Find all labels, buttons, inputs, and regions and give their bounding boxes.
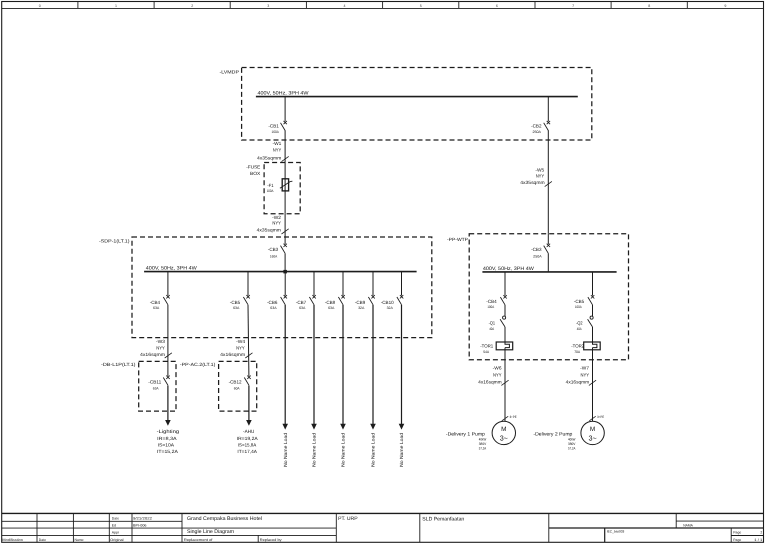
svg-text:No Name Load: No Name Load [341, 432, 346, 466]
thermal overload TOR2 [584, 342, 601, 350]
wire CB5 to CB12 [247, 305, 250, 376]
svg-text:3+PE: 3+PE [597, 415, 604, 419]
wire bus2 to CB9 [372, 272, 374, 296]
svg-text:100A: 100A [487, 305, 494, 309]
svg-text:-CB5: -CB5 [574, 299, 585, 304]
panel DB-L1P box [139, 361, 176, 411]
wire Q2 to TOR2 [592, 327, 594, 342]
svg-text:4x16sqmm: 4x16sqmm [566, 380, 590, 385]
wire CB10 to no name load arrow [401, 305, 403, 425]
wire through fuse [284, 163, 286, 214]
svg-text:3: 3 [267, 4, 269, 8]
svg-text:No Name Load: No Name Load [283, 432, 288, 466]
panel PP-AC.2 box [219, 361, 257, 411]
svg-text:-CB12: -CB12 [229, 379, 242, 384]
panel SDP-1 box [132, 237, 432, 338]
svg-text:9: 9 [724, 4, 726, 8]
breaker CB4 (PP-WTP) [503, 295, 506, 298]
bus PP-WTP 400V [482, 271, 616, 273]
svg-text:9/21/2022: 9/21/2022 [133, 516, 152, 520]
wire CB3wtp to bus3 [547, 253, 549, 272]
svg-text:-Delivery 1 Pump: -Delivery 1 Pump [446, 431, 485, 437]
svg-text:63A: 63A [270, 306, 277, 310]
breaker CB9 [371, 295, 374, 298]
wire CB12 to AHU arrow [248, 385, 250, 421]
cable slash W4 [245, 353, 252, 358]
breaker CB5 [246, 295, 249, 298]
header tick 5 [382, 2, 384, 9]
svg-text:M: M [590, 426, 595, 433]
svg-text:2: 2 [191, 4, 193, 8]
svg-text:NYY: NYY [272, 221, 281, 226]
header tick 1 [77, 2, 79, 9]
svg-text:400V, 50Hz, 3PH 4W: 400V, 50Hz, 3PH 4W [483, 266, 534, 272]
svg-text:3~: 3~ [588, 433, 596, 442]
svg-text:54A: 54A [483, 350, 490, 354]
svg-text:Grand Cempaka Business Hotel: Grand Cempaka Business Hotel [187, 516, 262, 522]
svg-text:NYY: NYY [156, 346, 165, 351]
junction node CB3/bus2 [283, 270, 287, 274]
breaker CB5 (PP-WTP) [591, 295, 594, 298]
svg-text:57,2A: 57,2A [568, 446, 576, 450]
svg-text:-Lighting: -Lighting [157, 429, 180, 435]
svg-text:4x35sqmm: 4x35sqmm [257, 155, 281, 160]
wire CB4 to CB11 [167, 305, 169, 376]
svg-text:-PP-WTP: -PP-WTP [447, 237, 468, 242]
panel PP-WTP box [469, 234, 628, 360]
svg-text:Single Line Diagram: Single Line Diagram [187, 529, 234, 535]
svg-text:-CB10: -CB10 [381, 300, 394, 305]
svg-text:-CB6: -CB6 [267, 300, 278, 305]
svg-text:-DB-L1P(LT.1): -DB-L1P(LT.1) [101, 362, 136, 367]
svg-text:40A: 40A [577, 327, 583, 331]
svg-text:Original: Original [110, 538, 124, 542]
svg-text:160A: 160A [272, 130, 280, 134]
svg-text:4x16sqmm: 4x16sqmm [220, 352, 245, 357]
svg-text:No Name Load: No Name Load [371, 432, 376, 466]
svg-text:250A: 250A [533, 130, 542, 134]
svg-text:BOX: BOX [250, 171, 260, 176]
breaker CB1 [284, 121, 287, 124]
svg-text:-CB9: -CB9 [355, 300, 366, 305]
wire CB7 to no name load arrow [313, 305, 315, 425]
cable slash W1 [282, 156, 289, 161]
svg-text:-TOR1: -TOR1 [480, 344, 493, 349]
svg-text:4x16sqmm: 4x16sqmm [140, 352, 165, 357]
svg-text:5: 5 [420, 4, 422, 8]
title block top line [2, 512, 764, 514]
svg-text:32A: 32A [358, 306, 365, 310]
contactor Q2 [590, 316, 593, 319]
svg-text:Ed: Ed [112, 523, 116, 527]
svg-text:1: 1 [115, 4, 117, 8]
cable slash W2 [282, 229, 289, 234]
wire bus2 to CB8 [342, 272, 344, 296]
svg-text:100A: 100A [575, 305, 582, 309]
wire CB8 to no name load arrow [342, 305, 344, 425]
bus SDP-1 400V [144, 271, 417, 273]
svg-text:70A: 70A [574, 350, 581, 354]
svg-text:Modification: Modification [2, 538, 23, 542]
wire bus1 to CB2 [547, 97, 549, 122]
svg-text:-W3: -W3 [156, 339, 165, 344]
wire bus2 to CB7 [313, 272, 315, 296]
svg-text:Date: Date [39, 538, 46, 542]
svg-text:400V, 50Hz, 3PH 4W: 400V, 50Hz, 3PH 4W [258, 91, 309, 97]
svg-text:2: 2 [760, 530, 762, 534]
svg-text:-CB8: -CB8 [325, 300, 336, 305]
svg-text:NYY: NYY [536, 173, 545, 178]
header row line [2, 7, 764, 9]
breaker CB6 [284, 295, 287, 298]
svg-text:-CB2: -CB2 [531, 123, 542, 128]
svg-text:4x16sqmm: 4x16sqmm [478, 380, 502, 385]
breaker CB3 [284, 244, 287, 247]
svg-text:4x35sqmm: 4x35sqmm [520, 180, 544, 185]
svg-text:380V: 380V [479, 442, 487, 446]
title block vertical lines [36, 513, 38, 542]
svg-text:Appr: Appr [112, 530, 120, 534]
svg-text:63A: 63A [299, 306, 306, 310]
wire bus2 to CB10 [401, 272, 403, 296]
wire CB2 to PP-WTP (cable W5) [547, 130, 549, 233]
wire CB4 to Q1 [504, 305, 506, 316]
svg-text:1 / 1: 1 / 1 [754, 538, 762, 542]
svg-text:Replacement of: Replacement of [184, 538, 213, 542]
svg-text:63A: 63A [153, 387, 159, 391]
svg-text:Page: Page [733, 530, 741, 534]
svg-text:-W6: -W6 [493, 365, 502, 370]
svg-text:4x35sqmm: 4x35sqmm [257, 228, 281, 233]
cable slash W6 [501, 380, 508, 385]
breaker CB3 (PP-WTP) [547, 244, 550, 247]
svg-text:Replaced by: Replaced by [260, 538, 282, 542]
svg-text:63A: 63A [328, 306, 335, 310]
breaker CB7 [312, 295, 315, 298]
wire bus2 to CB5 [247, 272, 249, 296]
svg-text:Page: Page [733, 538, 741, 542]
svg-text:IT=17,4A: IT=17,4A [237, 449, 257, 454]
breaker CB4 [166, 295, 169, 298]
header tick 7 [534, 2, 536, 9]
svg-text:-W2: -W2 [272, 215, 281, 220]
svg-text:-CB3: -CB3 [268, 247, 279, 252]
svg-text:-LVMDP: -LVMDP [220, 69, 240, 74]
svg-text:SLD Pemanfaatan: SLD Pemanfaatan [422, 517, 464, 523]
svg-text:-PP-AC.2(LT.1): -PP-AC.2(LT.1) [180, 362, 216, 367]
cable slash 3+PE motor 2 [589, 416, 595, 421]
wire CB6 to no name load arrow [284, 305, 286, 425]
svg-text:IT=15,2A: IT=15,2A [157, 449, 179, 454]
motor M2 (3~) [581, 421, 604, 444]
svg-text:NAMA: NAMA [683, 523, 693, 527]
svg-text:Name: Name [75, 538, 84, 542]
contactor Q1 [503, 316, 506, 319]
svg-text:0: 0 [39, 4, 41, 8]
cable slash 3+PE motor 1 [502, 416, 508, 421]
svg-text:-FUSE: -FUSE [246, 164, 260, 169]
svg-text:63A: 63A [153, 306, 160, 310]
header tick 4 [305, 2, 307, 9]
svg-text:PT. URP: PT. URP [338, 516, 358, 522]
wire bus2 to CB4 [167, 272, 169, 296]
svg-text:6: 6 [496, 4, 498, 8]
svg-text:250A: 250A [533, 254, 542, 258]
svg-text:NYY: NYY [273, 148, 282, 153]
svg-text:-CB11: -CB11 [148, 379, 161, 384]
svg-text:380V: 380V [568, 442, 576, 446]
wire CB11 to lighting arrow [167, 385, 169, 421]
svg-text:160A: 160A [270, 254, 278, 258]
svg-text:-CB7: -CB7 [296, 300, 307, 305]
motor M1 (3~) [492, 421, 515, 444]
svg-text:-W5: -W5 [535, 167, 544, 172]
wire bus3 branch 1 [504, 272, 506, 296]
svg-text:-CB4: -CB4 [486, 299, 497, 304]
wire TOR1 to motor [504, 348, 506, 422]
svg-text:400V, 50Hz, 3PH 4W: 400V, 50Hz, 3PH 4W [146, 266, 197, 272]
svg-text:8: 8 [648, 4, 650, 8]
svg-text:IS=15,8A: IS=15,8A [238, 443, 257, 448]
title block horizontal line row1 [2, 520, 182, 522]
wire TOR2 to motor [592, 348, 594, 422]
svg-text:IEC_bas003: IEC_bas003 [607, 530, 625, 534]
thermal overload TOR1 [496, 342, 513, 350]
title block horizontal line row3 [2, 534, 337, 536]
svg-text:-Q1: -Q1 [489, 320, 496, 325]
svg-text:63A: 63A [233, 306, 240, 310]
wire CB5 to Q2 [592, 305, 594, 316]
svg-text:-CB1: -CB1 [268, 123, 279, 128]
svg-text:-CB5: -CB5 [230, 300, 241, 305]
header tick 8 [610, 2, 612, 9]
svg-text:M: M [501, 426, 506, 433]
svg-text:3~: 3~ [500, 433, 508, 442]
breaker CB8 [341, 295, 344, 298]
wire W5 into panel to CB3wtp [547, 234, 549, 244]
cable slash W7 [589, 380, 596, 385]
svg-text:-Delivery 2 Pump: -Delivery 2 Pump [533, 431, 572, 437]
svg-text:57,2A: 57,2A [479, 446, 487, 450]
panel FUSE BOX [264, 163, 300, 214]
svg-text:-TOR2: -TOR2 [571, 344, 584, 349]
wire Q1 to TOR1 [504, 327, 506, 342]
cable slash W3 [165, 353, 172, 358]
cable slash W5 [545, 181, 552, 186]
svg-text:IR=19,2A: IR=19,2A [237, 436, 259, 441]
header tick 3 [229, 2, 231, 9]
wire bus2 to CB6 [284, 272, 286, 296]
breaker CB12 [247, 376, 250, 379]
svg-text:32A: 32A [387, 306, 394, 310]
wire bus1 to CB1 [284, 97, 286, 122]
svg-text:-SDP-1(LT.1): -SDP-1(LT.1) [99, 239, 130, 244]
svg-text:IR=8,3A: IR=8,3A [157, 436, 178, 441]
svg-text:-CB4: -CB4 [150, 300, 161, 305]
breaker CB2 [547, 121, 550, 124]
breaker CB11 [166, 376, 169, 379]
wire CB1 to fuse box [284, 130, 286, 162]
breaker CB10 [400, 295, 403, 298]
svg-text:100A: 100A [267, 189, 274, 193]
svg-text:IS=10A: IS=10A [158, 443, 175, 448]
bus LVMDP 400V [256, 96, 578, 98]
svg-text:-AHU: -AHU [243, 429, 255, 435]
header tick 9 [686, 2, 688, 9]
wire CB3 to bus2 [284, 253, 286, 271]
svg-text:NYY: NYY [581, 372, 590, 377]
svg-text:60A: 60A [234, 387, 240, 391]
svg-text:-CB3: -CB3 [531, 247, 542, 252]
svg-text:7: 7 [572, 4, 574, 8]
wire bus3 branch 2 [592, 272, 594, 296]
fuse F1 [282, 179, 288, 191]
header tick 6 [458, 2, 460, 9]
svg-text:-Q2: -Q2 [576, 320, 583, 325]
svg-text:-W4: -W4 [236, 339, 245, 344]
svg-text:Date: Date [112, 516, 119, 520]
title block horizontal line row2 [2, 527, 337, 529]
wire CB9 to no name load arrow [372, 305, 374, 425]
svg-text:No Name Load: No Name Load [312, 432, 317, 466]
svg-text:BPI-006: BPI-006 [133, 523, 147, 527]
svg-text:-W7: -W7 [580, 365, 589, 370]
wire fuse to CB3 [284, 214, 286, 244]
header tick 2 [153, 2, 155, 9]
svg-text:No Name Load: No Name Load [399, 432, 404, 466]
svg-text:40A: 40A [489, 327, 495, 331]
svg-text:NYY: NYY [493, 372, 502, 377]
svg-text:-F1: -F1 [267, 183, 274, 188]
svg-text:4: 4 [344, 4, 346, 8]
svg-text:3+PE: 3+PE [510, 415, 517, 419]
svg-text:-W1: -W1 [273, 141, 282, 146]
svg-text:NYY: NYY [236, 346, 245, 351]
panel LVMDP box [242, 68, 592, 141]
title block horizontal lines right [676, 520, 763, 522]
